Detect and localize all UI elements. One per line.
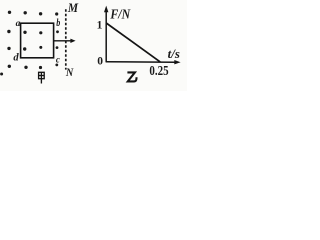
- svg-text:F/N: F/N: [110, 8, 131, 23]
- svg-text:N: N: [65, 65, 74, 79]
- svg-text:0.25: 0.25: [149, 64, 168, 79]
- svg-text:0: 0: [97, 56, 103, 68]
- svg-text:c: c: [56, 54, 60, 64]
- svg-text:d: d: [13, 52, 19, 63]
- svg-text:1: 1: [97, 19, 103, 31]
- svg-text:M: M: [67, 0, 78, 15]
- svg-text:a: a: [16, 19, 21, 29]
- svg-text:t/s: t/s: [168, 47, 180, 61]
- svg-text:b: b: [56, 17, 60, 29]
